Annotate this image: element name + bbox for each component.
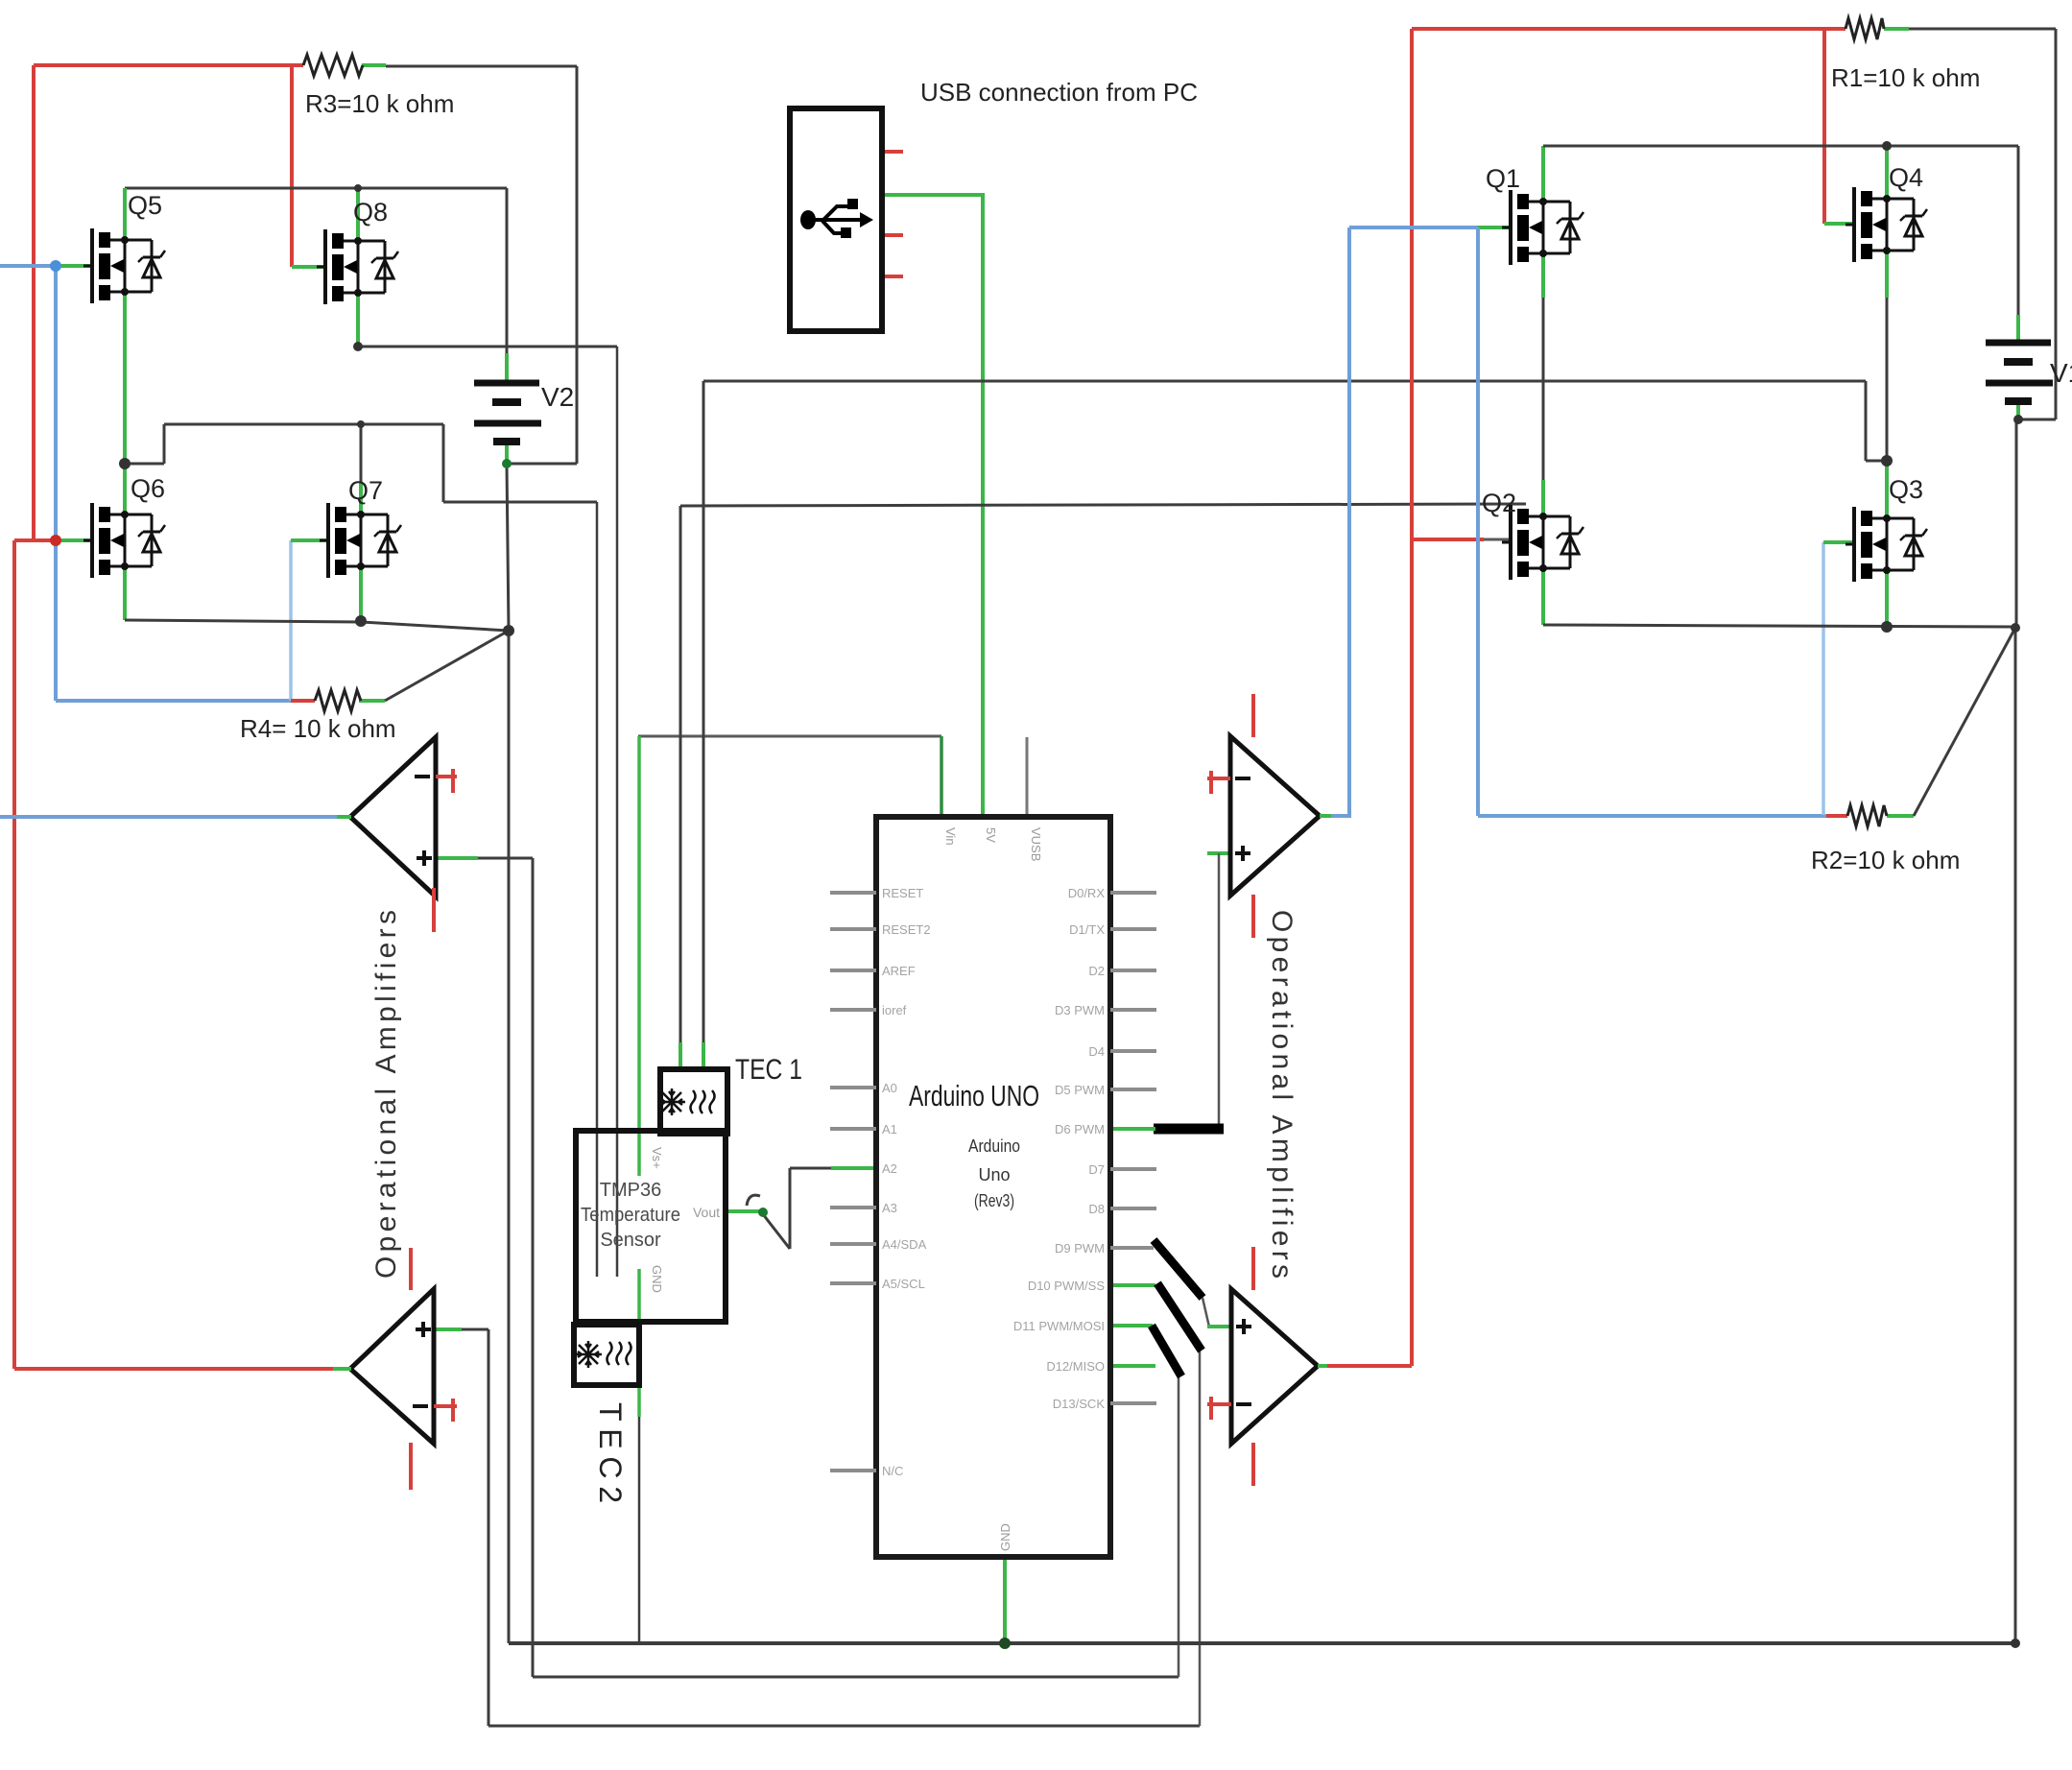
USB connector box xyxy=(790,108,882,331)
svg-text:D13/SCK: D13/SCK xyxy=(1053,1397,1106,1411)
wire Q4 source down to node xyxy=(1886,298,1889,461)
wire ground node down to bottom bus xyxy=(508,631,511,1643)
svg-text:A1: A1 xyxy=(882,1122,897,1136)
svg-text:GND: GND xyxy=(998,1523,1012,1551)
wire green op-amp U3 plus stub xyxy=(1207,851,1231,855)
wire V1 minus vertical to ground corner xyxy=(2015,419,2018,628)
svg-text:A5/SCL: A5/SCL xyxy=(882,1277,925,1291)
wire V1 plus vertical xyxy=(2017,146,2020,315)
wire op-amp U1 plus to x554 xyxy=(478,857,533,860)
wire green Q1 source stub xyxy=(1541,254,1545,298)
svg-text:D1/TX: D1/TX xyxy=(1069,922,1105,937)
svg-text:Q5: Q5 xyxy=(128,191,162,220)
TMP36 sensor box xyxy=(576,1131,726,1322)
svg-text:A0: A0 xyxy=(882,1081,897,1095)
wire green stub Q4 gate xyxy=(1824,222,1855,226)
junction node Q3 source xyxy=(1881,621,1893,633)
TEC2 heat waves icon xyxy=(607,1342,631,1365)
transistor Q8 xyxy=(317,229,398,304)
wire Q2 Q3 source bus y651 xyxy=(1543,625,2015,627)
arduino top pin labels rotated xyxy=(943,827,1043,861)
USB trident icon xyxy=(808,206,862,233)
wire A2 green stub xyxy=(831,1166,876,1170)
wire x554 vertical to bus2 xyxy=(532,858,535,1677)
wire red op-amp U4 output xyxy=(1325,1364,1412,1368)
wire green D12 stub xyxy=(1110,1364,1155,1368)
resistor R2 xyxy=(1847,805,1887,826)
wire red stub R4 left xyxy=(291,699,315,703)
wire V2 plus vertical xyxy=(506,188,509,353)
svg-text:(Rev3): (Rev3) xyxy=(974,1191,1014,1210)
svg-text:Q8: Q8 xyxy=(353,198,388,227)
switch hook mark xyxy=(747,1195,760,1206)
wire red feedback left top horizontal xyxy=(34,63,303,67)
junction node TMP36 Vout blade xyxy=(758,1208,768,1217)
junction node ground left xyxy=(503,625,514,636)
wire green Q7 drain stub xyxy=(359,482,363,515)
svg-text:V1: V1 xyxy=(2050,358,2072,388)
wire op-amp U3 plus down to D6 bar xyxy=(1218,853,1221,1125)
TEC2 snowflake icon xyxy=(575,1341,602,1368)
op-amp U1 plus mark xyxy=(417,850,432,866)
svg-text:ioref: ioref xyxy=(882,1003,907,1017)
wire red right long vertical xyxy=(1410,29,1414,1366)
wire red stub R2 left xyxy=(1826,814,1847,818)
junction node arduino GND xyxy=(999,1638,1011,1649)
svg-text:USB connection from PC: USB connection from PC xyxy=(920,78,1198,107)
wire green Q6 source stub xyxy=(123,566,127,620)
wire Q7 drain vertical xyxy=(360,424,363,482)
arduino U5 board box xyxy=(876,817,1110,1557)
wire green op-amp U4 plus stub xyxy=(1207,1325,1232,1328)
svg-text:Temperature: Temperature xyxy=(581,1205,680,1226)
op-amp U2 output stub xyxy=(333,1367,351,1371)
op-amp U4 plus mark xyxy=(1236,1319,1251,1334)
op-amp U2 power stub top xyxy=(409,1248,413,1290)
wire y442 horizontal xyxy=(164,423,443,426)
arduino left pin stubs xyxy=(830,893,876,1471)
wire blue left vertical to R4 xyxy=(54,266,58,701)
op-amp U4 minus stub red xyxy=(1207,1397,1231,1420)
svg-text:D9 PWM: D9 PWM xyxy=(1055,1241,1105,1256)
wire x509 vertical to bus3 xyxy=(488,1329,490,1726)
wire green node to Q3 drain xyxy=(1885,461,1889,518)
transistor Q5 xyxy=(83,228,165,303)
wire red left vertical upper xyxy=(32,65,36,540)
wire green Q4 source stub xyxy=(1885,251,1889,298)
op-amp U1 minus stub red xyxy=(436,769,457,793)
resistor R1 xyxy=(1846,18,1884,39)
svg-text:D5 PWM: D5 PWM xyxy=(1055,1083,1105,1097)
op-amp U2 triangle xyxy=(350,1289,434,1444)
op-amp U1 output stub xyxy=(337,815,351,819)
wire green stub V2 plus xyxy=(505,353,509,382)
svg-text:TEC 1: TEC 1 xyxy=(735,1054,802,1086)
wire green arduino Vin pin vertical xyxy=(940,736,943,817)
wire ground corner down to bottom bus xyxy=(2014,628,2017,1643)
svg-text:Q6: Q6 xyxy=(131,474,165,503)
svg-text:D3 PWM: D3 PWM xyxy=(1055,1003,1105,1017)
wire up x171 xyxy=(163,424,166,464)
op-amp U1 triangle xyxy=(350,737,436,897)
wire A2 vertical x823 xyxy=(789,1168,792,1249)
op-amp U1 power stub xyxy=(432,888,436,932)
wire TMP36 pin2 vertical x643 xyxy=(616,347,619,1277)
wire bottom bus3 xyxy=(488,1725,1200,1728)
wire R2 diagonal up to ground corner xyxy=(1914,628,2015,816)
wire green Q2 drain stub xyxy=(1541,480,1545,516)
op-amp U4 minus mark xyxy=(1236,1402,1251,1406)
svg-text:Uno: Uno xyxy=(978,1165,1010,1184)
svg-text:D12/MISO: D12/MISO xyxy=(1046,1359,1105,1374)
wire green stub Q3 gate xyxy=(1823,540,1855,544)
op-amp U3 power stub bottom xyxy=(1251,895,1255,938)
svg-text:Vs+: Vs+ xyxy=(650,1147,664,1169)
wire D9 jumper diagonal xyxy=(1154,1240,1203,1298)
svg-text:Q3: Q3 xyxy=(1889,475,1923,504)
op-amp U3 plus mark xyxy=(1235,846,1250,861)
wire x2142 vertical down xyxy=(2055,29,2058,419)
wire bus2 right vertical to D11 jumper xyxy=(1178,1376,1180,1677)
wire switch blade to TMP36 Vout xyxy=(763,1214,790,1249)
junction node Q8 source xyxy=(353,342,363,351)
svg-text:Arduino: Arduino xyxy=(968,1136,1020,1156)
svg-text:A4/SDA: A4/SDA xyxy=(882,1237,927,1252)
op-amp U3 triangle xyxy=(1230,736,1320,896)
resistor R4 xyxy=(315,690,361,711)
wire green arduino GND pin xyxy=(1003,1557,1007,1643)
battery V2 xyxy=(474,383,541,442)
wire red left vertical lower xyxy=(12,540,16,1369)
svg-text:AREF: AREF xyxy=(882,964,916,978)
junction node Q5 gate xyxy=(50,260,61,272)
junction node Q7 source xyxy=(355,615,367,627)
junction node Q4 source Q3 drain xyxy=(1881,455,1893,466)
wire V1 minus to x2142 xyxy=(2018,419,2056,421)
wire D6 thick bar xyxy=(1154,1124,1224,1135)
op-amp U4 power stub top xyxy=(1251,1247,1255,1290)
op-amp U4 power stub bottom xyxy=(1251,1443,1255,1486)
wire green Q1 drain stub xyxy=(1541,146,1545,203)
wire blue y850 to R2 xyxy=(1478,814,1826,818)
wire green stub Q1 gate xyxy=(1478,226,1512,229)
wire bottom bus2 xyxy=(533,1676,1179,1679)
wire red stub USB pin1 xyxy=(882,150,903,154)
wire green Q5 source to node xyxy=(123,292,127,465)
svg-text:VUSB: VUSB xyxy=(1029,827,1043,861)
wire TMP36 pin1 vertical x622 xyxy=(596,502,599,1277)
wire blue op-amp U1 output to left edge xyxy=(0,815,337,819)
wire red top right horizontal xyxy=(1412,27,1846,31)
wire blue y237 to Q1 gate xyxy=(1349,226,1478,229)
svg-text:D0/RX: D0/RX xyxy=(1068,886,1106,900)
svg-text:RESET: RESET xyxy=(882,886,923,900)
transistor Q1 xyxy=(1502,190,1584,265)
svg-text:D2: D2 xyxy=(1088,964,1105,978)
op-amp U4 output stub xyxy=(1318,1364,1327,1368)
wire bus3 right vertical to D10 jumper xyxy=(1199,1351,1202,1726)
wire light blue Q3 gate vertical xyxy=(1822,542,1825,815)
wire green TMP36 GND through TEC2 xyxy=(637,1269,641,1417)
wire green D6 stub xyxy=(1110,1127,1155,1131)
svg-text:D8: D8 xyxy=(1088,1202,1105,1216)
wire Q2 gate lead gray xyxy=(1484,538,1512,541)
svg-text:RESET2: RESET2 xyxy=(882,922,931,937)
wire Q1 drain bus y152 xyxy=(1543,145,2018,148)
svg-text:GND: GND xyxy=(650,1265,664,1293)
transistor Q2 xyxy=(1502,505,1584,580)
svg-text:R3=10 k ohm: R3=10 k ohm xyxy=(305,89,454,118)
wire green stub V1 minus xyxy=(2016,402,2020,420)
TEC2 box xyxy=(574,1325,639,1385)
wire Q1 source to Q2 drain xyxy=(1542,298,1545,480)
svg-text:D6 PWM: D6 PWM xyxy=(1055,1122,1105,1136)
svg-text:D11 PWM/MOSI: D11 PWM/MOSI xyxy=(1013,1319,1105,1333)
svg-text:Arduino UNO: Arduino UNO xyxy=(909,1079,1039,1112)
wire green stub Q6 gate xyxy=(58,538,93,542)
wire blue horizontal to R4 left xyxy=(56,699,291,703)
wire Q6 Q7 source bus to ground node xyxy=(125,620,509,631)
wire to Q3 drain node xyxy=(1866,460,1887,463)
wire V2 minus to x600 xyxy=(507,463,577,466)
svg-text:Q7: Q7 xyxy=(348,476,383,505)
op-amp U4 triangle xyxy=(1231,1289,1318,1444)
junction node V1 minus xyxy=(2013,415,2023,424)
transistor Q3 xyxy=(1846,507,1927,582)
junction node Q8 drain xyxy=(354,184,362,192)
wire green stub V1 plus xyxy=(2016,315,2020,343)
svg-text:D7: D7 xyxy=(1088,1162,1105,1177)
resistor R3 xyxy=(303,55,363,76)
op-amp U2 minus stub red xyxy=(434,1399,457,1422)
wire green op-amp U1 plus input stub xyxy=(436,856,478,860)
op-amp U3 minus mark xyxy=(1235,777,1250,780)
wire green Q3 source stub xyxy=(1885,570,1889,627)
wire arduino third top pin stub xyxy=(1026,737,1029,817)
wire A2 horizontal dark xyxy=(790,1167,831,1170)
wire red left jog at Q6 gate xyxy=(14,538,58,542)
svg-text:A3: A3 xyxy=(882,1201,897,1215)
wire green Q7 source stub xyxy=(359,566,363,621)
wire green D10 stub xyxy=(1110,1283,1155,1287)
op-amp U2 power stub bottom xyxy=(409,1443,413,1490)
wire green stub Q7 gate xyxy=(291,538,329,542)
svg-text:Operational Amplifiers: Operational Amplifiers xyxy=(370,910,402,1279)
junction node ground right corner xyxy=(2011,623,2020,633)
op-amp U1 minus mark xyxy=(415,775,430,778)
wire red R3 to Q8 gate vertical xyxy=(290,65,294,267)
svg-text:TMP36: TMP36 xyxy=(600,1180,661,1201)
wire red stub USB pin3 xyxy=(882,233,903,237)
wire green TMP36 Vs vertical x666 xyxy=(637,736,641,1176)
wire green TEC1 pin2 stub xyxy=(702,1042,705,1070)
arduino right pin labels xyxy=(1013,886,1105,1411)
wire green USB to arduino 5V xyxy=(882,195,983,817)
arduino right pin stubs xyxy=(1110,893,1156,1403)
wire blue op-amp U3 output up xyxy=(1329,227,1349,816)
wire green stub R3 right xyxy=(362,63,386,67)
wire red to op-amp U2 output xyxy=(14,1367,333,1371)
wire R3 right to corner xyxy=(386,65,577,68)
wire y397 to right bridge xyxy=(703,380,1866,383)
wire node A right xyxy=(125,463,164,466)
junction node Q7 drain xyxy=(357,420,365,428)
arduino left pin labels xyxy=(882,886,931,1478)
op-amp U3 minus stub red xyxy=(1207,771,1230,794)
wire red branch to Q2 gate xyxy=(1412,538,1484,541)
transistor Q7 xyxy=(320,503,401,578)
wire D11 jumper diagonal xyxy=(1152,1326,1181,1376)
wire TEC1 pin2 vertical x733 xyxy=(703,381,705,1042)
junction node V2 minus xyxy=(502,459,512,468)
wire blue x1539 vertical xyxy=(1476,227,1480,816)
TEC1 box xyxy=(660,1069,727,1134)
wire green D11 stub xyxy=(1110,1324,1153,1327)
wire light blue Q7 gate vertical xyxy=(289,540,293,701)
wire green Q8 drain stub xyxy=(356,188,360,242)
wire green stub R2 right xyxy=(1887,814,1914,818)
wire bottom ground bus1 xyxy=(509,1641,2015,1645)
svg-text:5V: 5V xyxy=(984,827,998,843)
wire red R1 branch vertical to Q4 gate xyxy=(1822,29,1826,224)
svg-text:A2: A2 xyxy=(882,1161,897,1176)
wire Q5 drain bus y196 xyxy=(125,187,507,190)
wire green Q8 source stub xyxy=(356,294,360,347)
wire R4 diagonal to ground node xyxy=(385,631,509,701)
svg-text:Vin: Vin xyxy=(943,827,958,846)
wire green op-amp U2 plus input stub xyxy=(434,1327,462,1331)
transistor Q4 xyxy=(1846,187,1927,262)
svg-text:Vout: Vout xyxy=(693,1205,720,1220)
wire green Q4 drain stub xyxy=(1885,146,1889,199)
wire R1 right to corner xyxy=(1909,28,2056,31)
wire red stub USB pin4 xyxy=(882,275,903,278)
svg-text:V2: V2 xyxy=(541,382,574,412)
svg-text:D10 PWM/SS: D10 PWM/SS xyxy=(1028,1279,1106,1293)
svg-text:D4: D4 xyxy=(1088,1044,1105,1059)
wire down x462 xyxy=(442,424,445,502)
wire green TMP36 Vout stub xyxy=(726,1209,763,1213)
wire down x1944 xyxy=(1865,381,1868,461)
wire green stub Q8 gate xyxy=(292,265,326,269)
op-amp U3 power stub top xyxy=(1251,694,1255,737)
battery V1 xyxy=(1986,343,2053,401)
TEC1 snowflake icon xyxy=(658,1088,685,1115)
svg-text:Q2: Q2 xyxy=(1482,489,1516,517)
wire green Q2 source stub xyxy=(1541,568,1545,625)
TEC1 heat waves icon xyxy=(691,1090,715,1113)
wire green node to Q6 drain xyxy=(123,465,127,515)
junction node bus1 right end xyxy=(2011,1638,2020,1648)
wire vertical x600 down to V2 minus xyxy=(576,66,579,464)
wire TMP36 GND to ground bus xyxy=(638,1417,641,1643)
svg-text:Q1: Q1 xyxy=(1486,164,1520,193)
svg-text:R4= 10 k ohm: R4= 10 k ohm xyxy=(240,714,396,743)
svg-text:Operational Amplifiers: Operational Amplifiers xyxy=(1266,910,1298,1279)
wire V2 minus down to ground node xyxy=(507,465,509,631)
wire TEC1 pin1 vertical x709 xyxy=(679,506,682,1042)
wire green stub R1 right xyxy=(1884,27,1909,31)
wire green TEC1 pin1 stub xyxy=(679,1042,682,1070)
wire D9 jumper tail to op-amp U4 plus xyxy=(1203,1298,1209,1327)
op-amp U2 plus mark xyxy=(416,1322,431,1337)
op-amp U3 output stub xyxy=(1320,814,1331,818)
op-amp U2 minus mark xyxy=(413,1404,428,1408)
wire blue Q5 gate to left edge xyxy=(0,264,56,268)
junction node Q4 drain xyxy=(1882,141,1892,151)
wire Q8 source bus y361 xyxy=(358,346,617,348)
svg-text:Sensor: Sensor xyxy=(600,1230,661,1251)
wire D10 jumper diagonal xyxy=(1157,1283,1202,1351)
wire TMP36 Vs bus y767 xyxy=(638,735,941,738)
svg-text:Q4: Q4 xyxy=(1889,163,1923,192)
svg-text:R2=10 k ohm: R2=10 k ohm xyxy=(1811,846,1960,874)
wire y527 to Q2 drain xyxy=(680,504,1526,506)
wire green stub Q5 gate xyxy=(56,264,93,268)
junction node Q6 gate xyxy=(50,535,61,546)
svg-text:R1=10 k ohm: R1=10 k ohm xyxy=(1831,63,1980,92)
transistor Q6 xyxy=(83,503,165,578)
wire op-amp U2 plus to x509 xyxy=(462,1328,488,1331)
wire green stub V2 minus xyxy=(505,442,509,465)
junction node Q5 source Q6 drain xyxy=(119,458,131,469)
wire y523 to TMP36 branch xyxy=(443,501,597,504)
wire green Q5 drain stub xyxy=(123,188,127,241)
svg-text:N/C: N/C xyxy=(882,1464,903,1478)
wire green stub R4 right xyxy=(359,699,385,703)
